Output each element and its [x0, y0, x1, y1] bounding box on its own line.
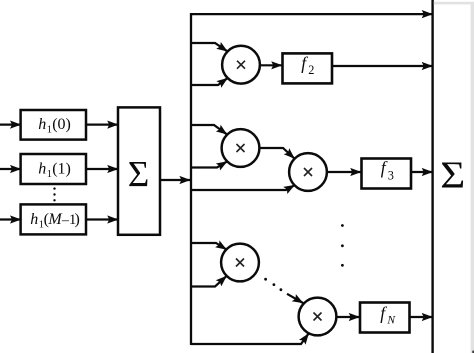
wire h1(0) output into summer S1 — [86, 123, 118, 125]
wire summer S1 output into bus node — [160, 179, 190, 181]
wire linear direct path to summer S2 — [190, 13, 432, 15]
multiplier M3a — [222, 129, 260, 167]
box fN — [360, 303, 410, 333]
diagonal ellipsis between multiplier MNa and multiplier MNb — [264, 278, 282, 291]
wire arrow from diagonal ellipsis into multiplier MNb — [287, 294, 303, 303]
wire bus feed to multiplier M3b lower input — [190, 185, 295, 190]
wire input x(n-M+1) into h1(M-1) — [0, 218, 21, 220]
multiplier MNb — [299, 298, 337, 336]
svg-text:Σ: Σ — [440, 154, 465, 196]
wire vertical bus — [190, 13, 192, 345]
svg-text:3: 3 — [388, 169, 394, 183]
multiplier M2 — [222, 46, 260, 84]
wire bus feed to multiplier MNa lower input — [190, 276, 226, 286]
svg-text:): ) — [75, 211, 80, 228]
wire h1(M-1) output into summer S1 — [86, 218, 118, 220]
box f3 — [362, 157, 412, 188]
multiplier M3b — [289, 153, 327, 191]
box f2 — [283, 53, 333, 84]
wire f2 output into summer S2 — [332, 65, 432, 67]
box h1(1) — [21, 154, 86, 184]
wire multiplier M2 output into f2 — [260, 64, 282, 66]
summer S2 (final sum, left edge of clipped box) — [433, 0, 466, 353]
box h1(0) — [21, 110, 86, 140]
svg-text:h: h — [38, 160, 46, 177]
wire bus feed to multiplier M3a lower input — [190, 162, 227, 168]
wire input x(n) into h1(0) — [0, 123, 21, 125]
svg-text:h: h — [38, 116, 46, 133]
wire h1(1) output into summer S1 — [86, 168, 118, 170]
wire f3 output into summer S2 — [411, 171, 432, 173]
svg-text:1: 1 — [47, 125, 52, 136]
box h1(M-1) — [21, 204, 86, 234]
svg-text:(0): (0) — [52, 116, 71, 133]
multiplier MNa — [221, 244, 259, 282]
wire bus feed to multiplier M2 upper input — [190, 43, 227, 51]
page frame top gray line — [434, 2, 474, 5]
wire input x(n-1) into h1(1) — [0, 168, 21, 170]
wire bus bottom feed to multiplier MNb lower input — [191, 334, 309, 344]
svg-text:2: 2 — [308, 63, 314, 77]
wire bus feed to multiplier MNa upper input — [190, 243, 226, 249]
svg-text:Σ: Σ — [128, 155, 150, 196]
wire fN output into summer S2 — [410, 316, 433, 318]
page frame corner mark — [472, 351, 474, 353]
wire bus feed to multiplier M3a upper input — [190, 125, 227, 134]
wire multiplier M3a output into multiplier M3b — [260, 148, 295, 158]
svg-text:h: h — [30, 211, 38, 228]
summer S1 (first sum box) — [118, 107, 160, 234]
vertical ellipsis between h1(1) and h1(M-1) — [53, 187, 55, 201]
svg-text:(1): (1) — [52, 160, 71, 177]
wire bus feed to multiplier M2 lower input — [190, 78, 227, 85]
svg-text:N: N — [386, 314, 396, 326]
svg-text:1: 1 — [47, 169, 52, 180]
vertical ellipsis between order-3 and order-N branches — [341, 224, 344, 267]
wire multiplier MNb output into fN — [337, 316, 360, 318]
page frame right gray line — [471, 2, 474, 353]
wire multiplier M3b output into f3 — [327, 171, 361, 173]
